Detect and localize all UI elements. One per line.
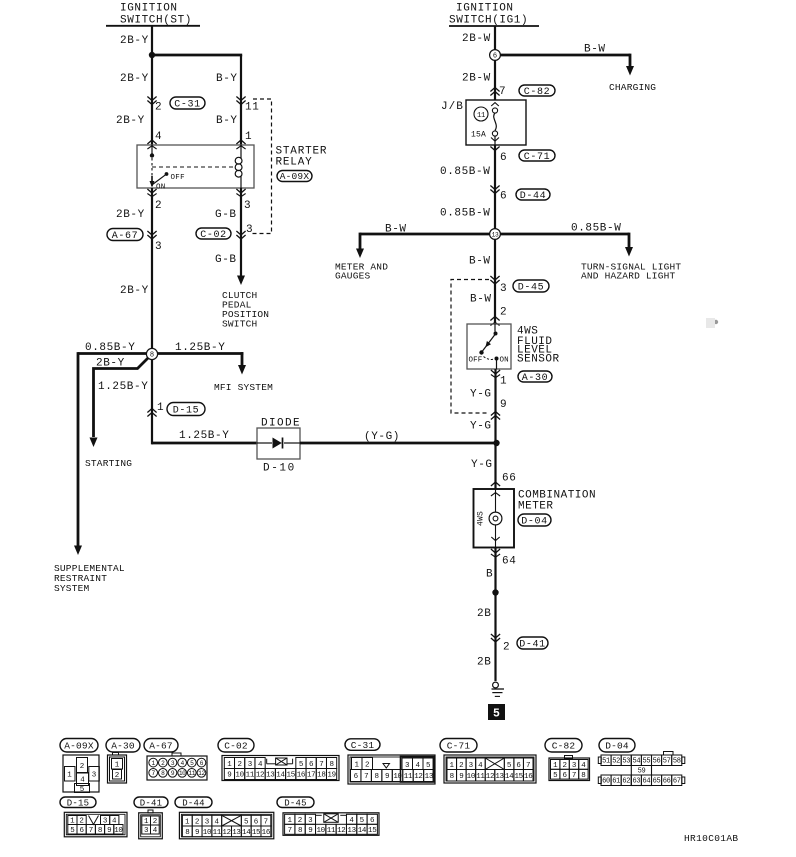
svg-text:1: 1 (354, 762, 359, 770)
svg-text:15A: 15A (471, 131, 486, 140)
svg-text:4: 4 (155, 131, 162, 143)
svg-text:16: 16 (262, 829, 271, 837)
svg-text:1: 1 (157, 402, 164, 414)
connector D-15 crossing pin 1 (147, 402, 164, 417)
connector D-45 crossing pin 3 (490, 276, 507, 295)
svg-text:7: 7 (89, 827, 93, 835)
wire label 2B (477, 608, 491, 620)
svg-text:8: 8 (185, 829, 189, 837)
svg-text:57: 57 (663, 758, 671, 766)
svg-text:55: 55 (643, 758, 651, 766)
svg-text:66: 66 (502, 473, 516, 485)
svg-text:8: 8 (450, 773, 454, 781)
connector C-31 pinout (348, 755, 435, 784)
svg-text:DIODE: DIODE (261, 418, 301, 430)
wire 1.25B-Y to MFI system (157, 342, 243, 365)
svg-text:7: 7 (319, 761, 323, 769)
svg-text:HR10C01AB: HR10C01AB (684, 833, 738, 844)
destination text SUPPLEMENTAL RESTRAINT SYSTEM (54, 563, 125, 594)
svg-text:C-31: C-31 (174, 99, 200, 110)
svg-text:0.85B-W: 0.85B-W (440, 208, 490, 220)
svg-text:B-Y: B-Y (216, 73, 238, 85)
svg-text:D-45: D-45 (518, 282, 544, 293)
svg-text:7: 7 (526, 762, 531, 770)
starter relay box A-09X (137, 145, 254, 188)
svg-text:(Y-G): (Y-G) (364, 431, 400, 443)
svg-text:3: 3 (405, 762, 410, 770)
svg-text:2B-W: 2B-W (462, 33, 491, 45)
svg-text:IGNITION: IGNITION (120, 3, 178, 15)
svg-text:13: 13 (492, 232, 499, 239)
svg-text:11: 11 (477, 112, 485, 120)
connector D-44 pinout (179, 812, 273, 839)
svg-text:3: 3 (155, 241, 162, 253)
svg-text:14: 14 (505, 773, 514, 781)
svg-text:17: 17 (307, 772, 315, 780)
svg-text:13: 13 (266, 772, 275, 780)
svg-text:OFF: OFF (171, 174, 185, 182)
wire label B-Y (216, 73, 238, 85)
svg-text:8: 8 (375, 773, 379, 781)
junction block J/B box (441, 100, 526, 145)
svg-text:9: 9 (107, 827, 111, 835)
arrow to meter and gauges (356, 249, 364, 259)
4WS sensor pin 2 (490, 307, 507, 326)
svg-text:3: 3 (246, 224, 253, 236)
wire 2B-W from ignition switch IG1 (462, 26, 495, 100)
svg-text:51: 51 (602, 758, 610, 766)
svg-text:14: 14 (276, 772, 285, 780)
svg-text:2B-Y: 2B-Y (120, 73, 149, 85)
arrow to starting (90, 438, 98, 448)
arrow to MFI system (238, 365, 246, 375)
junction dot diode branch (493, 440, 499, 446)
svg-text:61: 61 (612, 778, 620, 786)
arrow to supplemental restraint system (74, 546, 82, 556)
svg-text:11: 11 (476, 773, 485, 781)
svg-text:2: 2 (80, 763, 85, 771)
svg-text:19: 19 (327, 772, 335, 780)
starter relay internal contact (150, 145, 169, 188)
wire branch B-W to meter and gauges (360, 224, 495, 249)
svg-text:1: 1 (67, 772, 72, 780)
svg-text:64: 64 (502, 556, 516, 568)
svg-text:A-09X: A-09X (280, 171, 310, 182)
svg-text:SWITCH(IG1): SWITCH(IG1) (449, 15, 528, 27)
svg-text:2B-Y: 2B-Y (120, 285, 149, 297)
wire label 2B lower (477, 657, 491, 669)
svg-text:1.25B-Y: 1.25B-Y (98, 381, 148, 393)
dashed connector extent line A-09X (251, 99, 272, 234)
node 8 splice circle (146, 348, 157, 359)
svg-text:2: 2 (155, 200, 162, 212)
connector D-45 label (277, 797, 314, 808)
combination meter pin 66 (491, 473, 517, 497)
svg-text:5: 5 (80, 786, 85, 794)
svg-text:11: 11 (404, 773, 413, 781)
svg-text:C-71: C-71 (524, 152, 550, 163)
wire 2B-Y / 1.25B-Y to starting (94, 358, 149, 438)
connector C-71 pinout (444, 755, 536, 783)
svg-text:SWITCH(ST): SWITCH(ST) (120, 15, 192, 27)
svg-text:2B: 2B (477, 608, 491, 620)
svg-text:C-82: C-82 (524, 87, 550, 98)
svg-text:A-30: A-30 (522, 373, 548, 384)
connector D-15 label (60, 797, 96, 808)
svg-text:3: 3 (469, 762, 474, 770)
connector A-09X pinout (63, 755, 99, 794)
svg-text:10: 10 (235, 772, 244, 780)
wire label 1.25B-Y to diode (179, 430, 229, 442)
connector A-30 pinout (108, 753, 127, 784)
wire label G-B lower (215, 254, 237, 266)
svg-text:13: 13 (495, 773, 504, 781)
svg-text:D-45: D-45 (284, 798, 306, 808)
svg-text:C-02: C-02 (224, 740, 248, 751)
svg-text:B-W: B-W (584, 44, 606, 56)
4WS fluid level sensor box A-30 (467, 324, 511, 369)
connector C-31 label (170, 97, 205, 110)
svg-text:12: 12 (486, 773, 494, 781)
starter relay pin 4 (147, 131, 162, 149)
wire 2B-Y relay to node (116, 188, 152, 354)
svg-text:5: 5 (493, 708, 500, 721)
svg-text:14: 14 (358, 827, 367, 835)
svg-text:6: 6 (493, 53, 497, 61)
svg-text:METER: METER (518, 501, 554, 513)
sensor connector label A-30 (518, 371, 552, 384)
destination text CHARGING (609, 82, 656, 93)
svg-text:OFF: OFF (469, 357, 483, 365)
svg-text:C-31: C-31 (351, 740, 375, 751)
svg-text:1.25B-Y: 1.25B-Y (175, 342, 225, 354)
connector D-41 label (517, 637, 548, 650)
svg-text:16: 16 (297, 772, 306, 780)
svg-text:C-71: C-71 (447, 740, 471, 751)
svg-text:8: 8 (98, 827, 102, 835)
svg-text:1: 1 (245, 131, 252, 143)
svg-text:10: 10 (179, 770, 186, 777)
svg-text:16: 16 (524, 773, 533, 781)
diagram code HR10C01AB (684, 833, 738, 844)
connector D-15 pinout (64, 812, 127, 837)
svg-text:2B-Y: 2B-Y (116, 115, 145, 127)
starter relay ON label (156, 184, 166, 192)
svg-text:D-41: D-41 (140, 798, 162, 808)
svg-text:10: 10 (203, 829, 212, 837)
wire label 0.85B-W lower (440, 208, 490, 220)
starter relay pin 1 (236, 131, 252, 149)
wire Y-G sensor to meter (470, 369, 496, 489)
svg-text:59: 59 (638, 768, 646, 776)
wire label Y-G above meter (471, 459, 493, 471)
svg-text:2: 2 (155, 102, 162, 114)
svg-text:4: 4 (415, 762, 420, 770)
destination text CLUTCH PEDAL POSITION SWITCH (222, 290, 269, 330)
connector C-82 crossing pin 7 (490, 86, 506, 98)
svg-text:8: 8 (581, 772, 585, 780)
svg-text:STARTING: STARTING (85, 458, 132, 469)
svg-text:GAUGES: GAUGES (335, 271, 371, 282)
connector C-31 crossing pin 11 (236, 97, 259, 114)
svg-text:5: 5 (244, 819, 249, 827)
connector C-31 crossing pin 2 (147, 97, 162, 114)
connector D-45 pinout (283, 813, 379, 836)
svg-text:6: 6 (500, 152, 507, 164)
svg-text:63: 63 (632, 778, 640, 786)
connector D-04 pinout (598, 752, 685, 786)
svg-text:B-W: B-W (469, 256, 491, 268)
svg-text:7: 7 (572, 772, 576, 780)
svg-text:64: 64 (643, 778, 651, 786)
svg-text:12: 12 (198, 770, 205, 777)
connector C-71 label (519, 150, 555, 163)
connector D-44 label (516, 189, 550, 202)
connector D-15 label (167, 403, 205, 417)
connector D-41 crossing pin 2 (491, 634, 510, 654)
arrow to turn-signal and hazard light (625, 247, 633, 257)
svg-text:9: 9 (459, 773, 463, 781)
destination text METER AND GAUGES (335, 262, 388, 282)
svg-text:SWITCH: SWITCH (222, 319, 257, 330)
connector D-45 crossing pin 9 (491, 399, 507, 420)
diode symbol (273, 438, 283, 449)
4WS sensor internal switch (479, 324, 498, 369)
combination meter internal lead and 4WS lamp (477, 489, 502, 548)
svg-text:D-41: D-41 (519, 639, 545, 650)
diode D-10 box (257, 428, 300, 459)
fuse rating 15A (471, 131, 486, 140)
svg-text:14: 14 (242, 829, 251, 837)
svg-text:15: 15 (287, 772, 296, 780)
svg-text:4: 4 (478, 762, 483, 770)
connector C-02 label (218, 739, 254, 753)
svg-text:3: 3 (500, 283, 507, 295)
svg-text:13: 13 (232, 829, 241, 837)
connector D-41 pinout (139, 810, 163, 839)
4WS sensor pin 1 (491, 370, 507, 388)
svg-text:54: 54 (632, 758, 640, 766)
power source label IGNITION SWITCH(IG1) (449, 3, 539, 27)
connector C-02 pinout (222, 756, 339, 781)
svg-text:D-15: D-15 (67, 798, 89, 808)
svg-text:11: 11 (213, 829, 222, 837)
svg-text:0.85B-W: 0.85B-W (440, 166, 490, 178)
svg-text:D-44: D-44 (182, 798, 204, 808)
svg-text:10: 10 (467, 773, 476, 781)
svg-text:MFI SYSTEM: MFI SYSTEM (214, 382, 273, 393)
connector C-02 label (196, 228, 231, 241)
starter relay output pin 2 (147, 189, 162, 212)
svg-text:1: 1 (185, 819, 190, 827)
wire 0.85B-Y to SRS (78, 342, 147, 546)
svg-text:7: 7 (499, 86, 506, 98)
svg-text:66: 66 (663, 778, 671, 786)
diode name text (261, 418, 301, 430)
connector C-82 pinout (549, 756, 590, 781)
svg-text:1: 1 (450, 762, 455, 770)
connector D-44 crossing pin 6 (490, 186, 507, 203)
svg-text:2B-Y: 2B-Y (116, 209, 145, 221)
wire G-B relay to clutch switch (215, 188, 241, 277)
svg-text:Y-G: Y-G (470, 421, 492, 433)
combination meter name text (518, 490, 596, 513)
connector A-67 label (107, 229, 143, 242)
svg-text:12: 12 (222, 829, 230, 837)
starter relay internal dashed link (152, 166, 233, 168)
svg-text:7: 7 (264, 819, 269, 827)
svg-text:7: 7 (288, 827, 292, 835)
combination meter connector label D-04 (518, 514, 551, 527)
svg-text:1: 1 (500, 376, 507, 388)
svg-text:3: 3 (92, 772, 97, 780)
svg-text:6: 6 (516, 762, 521, 770)
dashed connector extent line D-45 (451, 280, 489, 414)
svg-text:15: 15 (514, 773, 523, 781)
4WS sensor OFF label (469, 357, 483, 365)
svg-text:11: 11 (246, 772, 255, 780)
svg-text:2: 2 (503, 642, 510, 654)
svg-text:2B-W: 2B-W (462, 73, 491, 85)
wire (Y-G) diode to combination meter branch (300, 431, 497, 443)
arrow to charging (626, 66, 634, 76)
svg-text:11: 11 (245, 102, 259, 114)
svg-text:10: 10 (114, 827, 123, 835)
svg-text:52: 52 (612, 758, 620, 766)
svg-text:CHARGING: CHARGING (609, 82, 656, 93)
svg-text:D-04: D-04 (605, 740, 629, 751)
ground reference badge 5 (489, 705, 505, 721)
svg-text:Y-G: Y-G (470, 389, 492, 401)
svg-text:0.85B-W: 0.85B-W (571, 223, 621, 235)
destination text STARTING (85, 458, 132, 469)
wire label 2B-Y (120, 73, 149, 85)
wire B-W node 13 to sensor (469, 239, 495, 324)
svg-text:4WS: 4WS (477, 511, 486, 526)
node junction at ignition ST feed (149, 52, 155, 58)
destination text MFI SYSTEM (214, 382, 273, 393)
svg-text:J/B: J/B (441, 101, 464, 113)
svg-text:D-04: D-04 (521, 516, 547, 527)
wire branch B-W to charging (495, 44, 630, 67)
svg-text:15: 15 (252, 829, 261, 837)
connector A-67 pinout (147, 753, 207, 780)
connector C-71 crossing pin 6 (490, 138, 507, 165)
svg-text:2: 2 (195, 819, 200, 827)
svg-text:ON: ON (156, 184, 166, 192)
ground symbol (492, 682, 505, 696)
svg-text:2B-Y: 2B-Y (120, 35, 149, 47)
svg-text:D-10: D-10 (263, 463, 296, 475)
svg-text:IGNITION: IGNITION (456, 3, 514, 15)
svg-text:2: 2 (365, 762, 370, 770)
svg-text:62: 62 (622, 778, 630, 786)
svg-text:12: 12 (414, 773, 422, 781)
svg-text:3: 3 (205, 819, 210, 827)
wire 2B-Y from ignition switch ST (120, 26, 152, 146)
combination meter box D-04 (474, 489, 515, 548)
connector D-41 label (134, 797, 168, 808)
svg-text:ON: ON (500, 357, 509, 365)
destination text TURN-SIGNAL LIGHT AND HAZARD LIGHT (581, 262, 681, 282)
fuse element (491, 103, 499, 145)
svg-text:9: 9 (227, 772, 231, 780)
starter relay coil (235, 145, 242, 188)
combination meter pin 64 (491, 549, 517, 568)
svg-text:15: 15 (368, 827, 377, 835)
connector D-44 label (175, 797, 212, 808)
svg-text:58: 58 (673, 758, 681, 766)
starter relay OFF label (171, 174, 185, 182)
svg-text:2: 2 (562, 762, 566, 770)
svg-text:2B: 2B (477, 657, 491, 669)
connector C-02 crossing pin 3 (236, 224, 253, 239)
svg-text:6: 6 (254, 819, 259, 827)
connector A-67 crossing pin 3 (147, 231, 162, 253)
svg-text:Y-G: Y-G (471, 459, 493, 471)
fuse number 11 circle (474, 107, 488, 121)
wire B meter to ground (486, 548, 496, 682)
svg-text:9: 9 (308, 827, 312, 835)
svg-text:AND HAZARD LIGHT: AND HAZARD LIGHT (581, 271, 676, 282)
connector C-71 label (440, 739, 477, 753)
svg-text:7: 7 (364, 773, 368, 781)
svg-text:67: 67 (673, 778, 681, 786)
svg-text:60: 60 (602, 778, 610, 786)
wire label Y-G below pin 9 (470, 421, 492, 433)
wire branch to starter relay coil B-Y (152, 55, 242, 146)
svg-text:B-W: B-W (470, 294, 492, 306)
svg-text:3: 3 (244, 200, 251, 212)
svg-text:1.25B-Y: 1.25B-Y (179, 430, 229, 442)
connector A-09X label (60, 739, 98, 753)
svg-text:10: 10 (316, 827, 325, 835)
svg-text:11: 11 (327, 827, 336, 835)
wire 1.25B-Y node 8 to diode (152, 360, 257, 445)
node 13 splice circle (490, 229, 501, 240)
4WS sensor ON label (500, 357, 509, 365)
svg-text:5: 5 (426, 762, 431, 770)
svg-text:12: 12 (337, 827, 345, 835)
svg-text:A-09X: A-09X (64, 740, 94, 751)
power source label IGNITION SWITCH(ST) (106, 3, 200, 27)
wire label B-W at sensor (470, 294, 492, 306)
svg-text:2: 2 (115, 772, 120, 780)
wire label 2B-Y above node 8 (120, 285, 149, 297)
node 6 splice circle (490, 50, 501, 61)
svg-text:B: B (486, 569, 493, 581)
junction dot ground splice (492, 589, 498, 595)
starter relay connector label A-09X (277, 171, 312, 183)
svg-text:9: 9 (385, 773, 389, 781)
svg-text:G-B: G-B (215, 254, 237, 266)
scan artifact smudge (706, 318, 718, 328)
wire label B-Y below C-31 (216, 115, 238, 127)
svg-text:C-02: C-02 (200, 230, 226, 241)
svg-text:2B-Y: 2B-Y (96, 358, 125, 370)
svg-text:8: 8 (298, 827, 302, 835)
svg-text:0.85B-Y: 0.85B-Y (85, 342, 135, 354)
connector C-82 label (545, 739, 582, 753)
svg-text:18: 18 (317, 772, 325, 780)
svg-text:8: 8 (329, 761, 333, 769)
svg-text:SENSOR: SENSOR (517, 354, 560, 366)
svg-text:G-B: G-B (215, 209, 237, 221)
connector C-31 label (345, 739, 380, 751)
svg-text:56: 56 (653, 758, 661, 766)
svg-text:2: 2 (238, 761, 242, 769)
wire 0.85B-W J/B to node 13 (440, 145, 495, 229)
